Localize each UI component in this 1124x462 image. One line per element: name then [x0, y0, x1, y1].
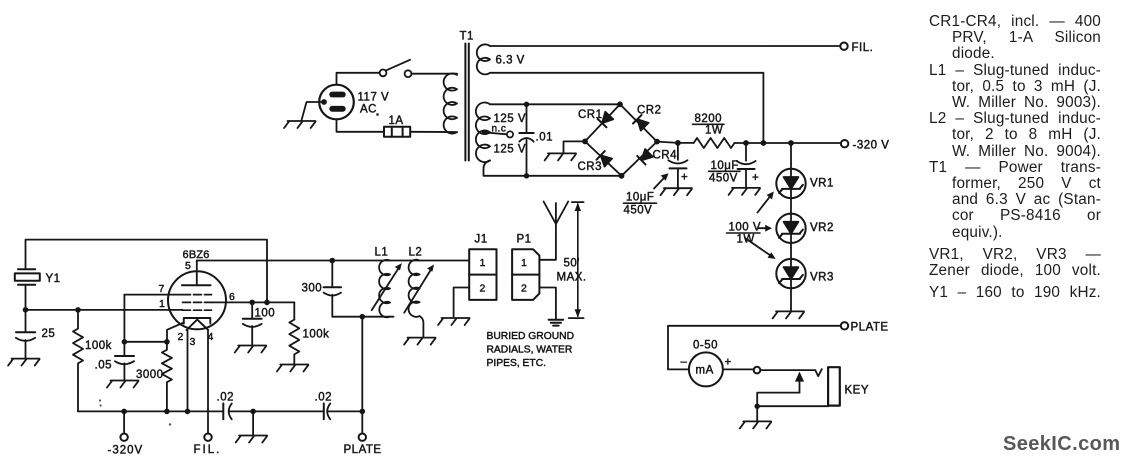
ground J1	[438, 318, 469, 325]
inductor L1	[379, 260, 390, 318]
svg-text:VR2: VR2	[810, 222, 834, 234]
node VR string top	[788, 140, 794, 146]
node mid ground junction	[250, 409, 256, 415]
transformer T1 primary winding	[444, 73, 457, 133]
resistor 100k screen	[289, 320, 299, 364]
svg-text:1: 1	[159, 298, 165, 310]
capacitor 300	[324, 261, 341, 317]
arrow to VR1	[758, 192, 774, 213]
svg-text:.01: .01	[536, 132, 554, 144]
wire key lower branch	[757, 393, 799, 407]
svg-text:100k: 100k	[303, 329, 330, 341]
wire filter node to resistor	[678, 142, 694, 144]
ink speck colon smudge	[99, 399, 101, 401]
svg-text:J1: J1	[475, 234, 488, 246]
switch S1	[380, 60, 412, 77]
node Y1 bottom	[23, 307, 29, 313]
node PLATE junction	[360, 409, 366, 415]
capacitor C2 10uF 450V	[737, 143, 756, 187]
ground plug	[284, 121, 315, 128]
wire L2 bottom to ground	[420, 316, 424, 337]
wire key spring contact	[760, 369, 822, 376]
ground L2	[404, 338, 435, 345]
wire tank bottom down to plate rail	[361, 317, 363, 412]
wire pin 7	[124, 294, 182, 296]
wire primary bottom to fuse	[410, 131, 457, 133]
ground cap .05	[107, 381, 138, 388]
svg-text:AC: AC	[360, 104, 377, 116]
svg-text:50': 50'	[564, 258, 581, 270]
fuse F1 1A	[384, 127, 410, 137]
label 100V 1W	[727, 222, 762, 246]
svg-text:+: +	[681, 172, 688, 184]
ground bridge left	[545, 153, 576, 160]
wire grid 1 line	[26, 309, 183, 311]
wire plug ground lead	[302, 102, 325, 120]
terminal FIL bottom	[204, 434, 211, 441]
node bridge top	[617, 101, 623, 107]
svg-text:+: +	[725, 357, 732, 369]
svg-text:FIL.: FIL.	[194, 444, 222, 456]
diode CR1	[598, 111, 614, 127]
transformer T1 6.3V winding	[477, 44, 490, 74]
svg-text:n.c: n.c	[492, 124, 507, 135]
svg-text:VR1: VR1	[810, 178, 834, 190]
svg-text:.02: .02	[315, 392, 333, 404]
svg-text:CR1: CR1	[578, 109, 603, 121]
ground mid rail	[236, 436, 267, 443]
resistor R1 8200 1W	[694, 138, 735, 148]
svg-text:3: 3	[190, 336, 196, 348]
svg-text:BURIED GROUND: BURIED GROUND	[487, 331, 575, 342]
svg-text:CR3: CR3	[578, 161, 603, 173]
key tip contact triangle	[795, 372, 804, 382]
tube plate bar pin5	[182, 284, 211, 286]
ground VR3	[773, 311, 804, 318]
earth ground P1	[549, 320, 564, 326]
svg-text:mA: mA	[696, 365, 714, 377]
svg-text:.05: .05	[95, 360, 113, 372]
svg-text:1: 1	[480, 257, 486, 269]
svg-text:10μF: 10μF	[626, 192, 654, 204]
svg-text:100: 100	[255, 308, 276, 320]
node bridge left	[582, 139, 588, 145]
svg-text:PLATE: PLATE	[851, 322, 889, 334]
node 100 cap junction	[249, 300, 255, 306]
node filter cap 1	[675, 140, 681, 146]
svg-text:5: 5	[185, 260, 191, 272]
svg-text:1: 1	[521, 257, 527, 269]
svg-text:25: 25	[42, 328, 56, 340]
svg-text:-320 V: -320 V	[853, 140, 890, 152]
svg-text:–: –	[681, 356, 688, 368]
svg-text:8200: 8200	[695, 113, 723, 125]
dimension 50ft MAX	[569, 202, 584, 318]
capacitor C1 10uF 450V	[668, 143, 687, 187]
diode CR2	[633, 115, 649, 131]
label 10uF 450V C1 with arrow	[624, 173, 669, 216]
antenna	[544, 202, 569, 225]
diode CR4	[637, 149, 653, 165]
jack J1	[469, 249, 496, 300]
wire PLATE line	[668, 326, 841, 370]
wire pin 6	[212, 301, 295, 303]
arrow L1 slug	[372, 263, 402, 310]
svg-text:100k: 100k	[85, 340, 112, 352]
wire bridge right to filter node	[657, 142, 678, 143]
svg-text:P1: P1	[517, 234, 532, 246]
ground cap 100	[235, 346, 266, 353]
terminal PLATE bottom	[361, 411, 363, 433]
terminal -320V bottom	[123, 411, 125, 433]
node bridge bottom	[619, 173, 625, 179]
svg-text:450V: 450V	[624, 205, 653, 217]
ground C1	[661, 188, 692, 195]
node 3000 junction on rail	[164, 409, 170, 415]
wire HV bottom lead to bridge bottom rail	[484, 160, 622, 175]
wire switch to T1 primary	[411, 73, 457, 75]
svg-text:125 V: 125 V	[494, 144, 527, 156]
wire pin 3 heater lead	[187, 330, 189, 411]
zener VR1	[776, 169, 805, 198]
svg-text:117 V: 117 V	[358, 92, 390, 104]
svg-text:3000: 3000	[136, 369, 164, 381]
svg-text:T1: T1	[460, 31, 474, 43]
label 10uF 450V C2	[709, 160, 741, 185]
center tap n.c	[482, 130, 487, 135]
svg-text:CR4: CR4	[653, 150, 678, 162]
wire 6.3V top to FIL terminal	[490, 45, 840, 47]
tube heater	[187, 320, 209, 330]
wire 6.3V bottom to -320V rail	[490, 73, 763, 143]
svg-text:L1: L1	[375, 247, 389, 259]
wire bridge left to ground	[564, 141, 586, 152]
terminal FIL	[840, 43, 847, 50]
svg-text:300: 300	[302, 283, 323, 295]
wire junction to jack sleeve	[757, 405, 828, 407]
arrow to VR2	[759, 225, 773, 232]
wire P1 pin2 to earth	[539, 288, 556, 319]
wire tank bottom	[332, 316, 393, 318]
ground 100k screen	[277, 365, 308, 372]
tube V1 6BZ6 envelope	[168, 271, 226, 329]
transformer T1 HV winding 125V-125V	[476, 103, 490, 163]
capacitor 25	[16, 310, 35, 358]
svg-text:Y1: Y1	[46, 273, 61, 285]
svg-text:CR2: CR2	[637, 105, 662, 117]
ground C2	[729, 188, 760, 195]
svg-text:1W: 1W	[705, 125, 723, 137]
capacitor .02 second	[324, 403, 363, 419]
wire pin 2 cathode lead	[167, 323, 184, 342]
ground key	[740, 421, 771, 428]
diode CR3	[597, 151, 613, 167]
svg-text:+: +	[752, 172, 759, 184]
meter M1 0-50 mA	[668, 352, 753, 386]
zener VR3	[776, 259, 805, 288]
wire .05 node to 3000 node	[124, 341, 166, 343]
arrow to VR3	[745, 238, 776, 259]
wire VR string	[790, 143, 792, 311]
svg-text:100 V: 100 V	[729, 222, 762, 234]
node 100k grid leak	[75, 307, 81, 313]
terminal PLATE right	[841, 322, 848, 329]
svg-text:6: 6	[229, 291, 235, 303]
label 8200 1W	[693, 113, 725, 137]
crystal Y1	[15, 269, 40, 310]
node cap C2	[743, 140, 749, 146]
svg-text:VR3: VR3	[810, 272, 834, 284]
key jack body	[828, 367, 840, 405]
AC plug P0	[319, 85, 354, 120]
svg-text:450V: 450V	[709, 173, 738, 185]
wire plate line to tank and J1	[197, 260, 469, 262]
resistor 3000	[162, 342, 172, 412]
ink speck near AC label	[376, 113, 379, 116]
wire pin7 down to .05	[123, 295, 125, 342]
wire J1 pin2 to ground	[454, 288, 470, 317]
wire HV top lead to bridge	[490, 103, 620, 105]
label buried ground radials	[487, 331, 575, 369]
resistor 100k grid	[73, 310, 83, 412]
svg-text:MAX.: MAX.	[557, 272, 587, 284]
tube grid rows	[183, 294, 212, 296]
wire mid junction to second cap	[253, 410, 324, 412]
svg-text:10μF: 10μF	[711, 160, 739, 172]
wire Y1 top feedback	[26, 240, 268, 303]
svg-text:RADIALS, WATER: RADIALS, WATER	[487, 345, 573, 356]
arrow L2 slug	[404, 265, 434, 313]
wire pin6 to 100k screen	[293, 302, 295, 319]
svg-text:7: 7	[159, 283, 165, 295]
wire pin 4 heater lead to FIL	[207, 330, 209, 434]
plug P1	[512, 249, 539, 300]
node tank bottom to plate rail	[360, 314, 366, 320]
wire fuse to plug bottom	[337, 119, 385, 132]
wire junction to ground	[756, 406, 758, 420]
svg-text:2: 2	[521, 283, 527, 295]
svg-text:6.3 V: 6.3 V	[496, 55, 525, 67]
svg-text:0-50: 0-50	[693, 340, 718, 352]
svg-text:PLATE: PLATE	[344, 444, 382, 456]
inductor L2	[409, 260, 420, 317]
svg-text:1A: 1A	[389, 115, 404, 127]
tube cathode bracket	[184, 318, 211, 324]
wire resistor to -320V rail	[735, 142, 842, 144]
svg-text:-320V: -320V	[108, 445, 144, 457]
svg-text:2: 2	[178, 331, 184, 343]
node -320V terminal junction	[121, 409, 127, 415]
node Y1 feedback junction	[264, 300, 270, 306]
node cap .01 bottom	[524, 173, 529, 178]
node .05 junction	[122, 339, 128, 345]
transformer T1 core	[465, 44, 468, 161]
node 3000 top	[164, 339, 170, 345]
wire P1 pin1 to antenna	[539, 224, 556, 260]
wire bottom rail	[78, 410, 223, 412]
capacitor 100	[243, 302, 262, 344]
ink speck under rail	[169, 423, 171, 425]
node bridge right	[654, 139, 660, 145]
terminal key circle	[754, 367, 761, 374]
svg-text:KEY: KEY	[845, 385, 870, 397]
svg-text:.02: .02	[217, 392, 235, 404]
terminal -320V	[841, 140, 848, 147]
node 300 cap junction	[330, 258, 336, 264]
svg-text:4: 4	[208, 331, 214, 343]
node pin3 junction on rail	[185, 409, 191, 415]
zener VR2	[776, 214, 805, 243]
svg-text:PIPES, ETC.: PIPES, ETC.	[487, 358, 547, 369]
ground cap 25	[8, 359, 39, 366]
wire plug top to switch	[337, 73, 380, 85]
svg-text:L2: L2	[409, 247, 423, 259]
capacitor .02 first	[223, 403, 253, 419]
svg-text:FIL.: FIL.	[852, 42, 874, 54]
capacitor .01	[519, 104, 533, 176]
svg-text:2: 2	[480, 283, 486, 295]
node key ground junction	[755, 404, 760, 409]
wire mid junction to ground	[252, 411, 254, 434]
node HV top / cap .01 junction	[524, 102, 529, 107]
capacitor .05	[115, 342, 134, 380]
bridge rectifier frame	[585, 104, 657, 176]
node 6.3V return on rail	[761, 140, 767, 146]
